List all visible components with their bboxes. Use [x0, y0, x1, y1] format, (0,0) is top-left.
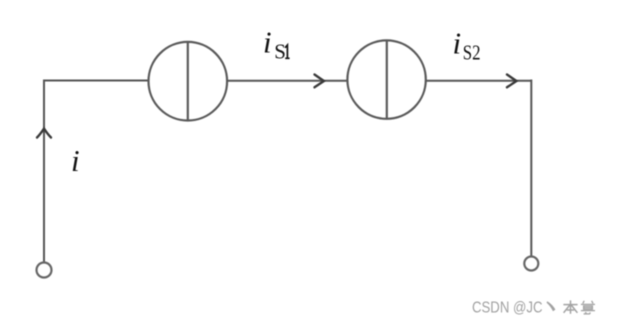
label subscript 1 — [285, 45, 290, 58]
arrow: i_S1 direction (right) — [315, 75, 325, 88]
wire: top-left horizontal — [43, 80, 149, 82]
svg-text:S2: S2 — [463, 40, 481, 64]
watermark glyph ben — [563, 300, 577, 313]
watermark dun stroke — [547, 301, 556, 311]
watermark — [472, 300, 595, 317]
current source IS2 — [347, 40, 425, 118]
current source IS1 — [149, 42, 228, 121]
svg-text:i: i — [71, 143, 80, 178]
watermark glyph zun — [581, 301, 595, 314]
wire: right vertical — [530, 80, 532, 257]
svg-text:i: i — [263, 25, 272, 60]
arrow: current i direction (up) — [37, 129, 51, 138]
arrow: i_S2 direction (right) — [507, 75, 517, 88]
terminal node (right) — [524, 257, 538, 271]
wire: right horizontal — [426, 80, 532, 82]
svg-text:CSDN @JC: CSDN @JC — [472, 300, 543, 317]
svg-text:i: i — [453, 26, 462, 61]
wire: middle horizontal — [227, 80, 348, 82]
terminal node (left) — [37, 263, 52, 278]
wire: left vertical — [43, 81, 45, 263]
svg-text:S: S — [274, 39, 286, 63]
